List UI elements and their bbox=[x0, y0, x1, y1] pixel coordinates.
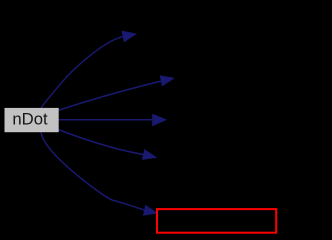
arrowhead 3 bbox=[152, 114, 167, 127]
wire: edge nDot to node1 (top) bbox=[41, 37, 123, 108]
wire: edge nDot to node2 bbox=[58, 81, 161, 110]
wire: edge nDot to node5 (red box) bbox=[41, 132, 144, 210]
svg-text:nDot: nDot bbox=[12, 110, 48, 129]
arrowhead 1 bbox=[122, 31, 137, 43]
arrowhead 4 bbox=[142, 149, 158, 160]
arrowhead 5 bbox=[143, 205, 158, 216]
node nDot (grey box) bbox=[5, 108, 59, 132]
arrowhead 2 bbox=[160, 75, 175, 86]
wire: edge nDot to node4 bbox=[58, 130, 144, 155]
highlighted node (red outline box) bbox=[157, 209, 276, 233]
wire: edge nDot to node3 (horizontal) bbox=[58, 119, 154, 121]
